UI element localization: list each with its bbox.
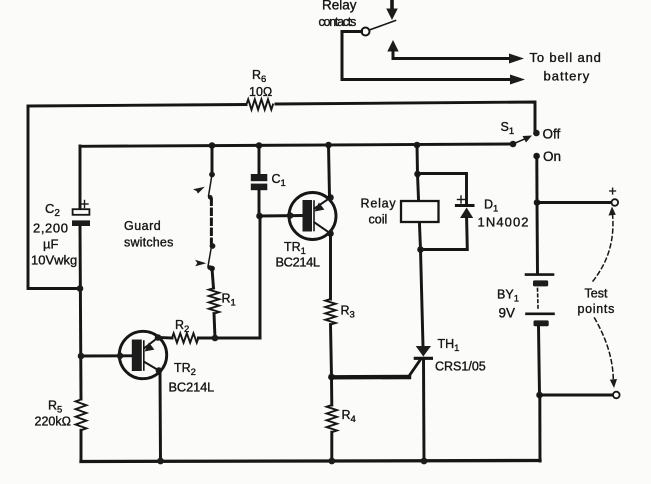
resistor R3 [325,299,335,325]
svg-text:Off: Off [543,127,561,142]
wire D1 loop top [418,174,467,206]
wire to + test point [537,201,612,204]
node TR2 collector on bus [157,458,164,465]
svg-text:Relay: Relay [361,197,397,211]
node C2/left-rail junction [77,285,84,292]
resistor R6 [247,99,273,109]
battery BY1 [526,275,554,327]
svg-text:S1: S1 [501,120,515,137]
label C1 [272,172,286,189]
capacitor C2 branch wire upper [79,146,82,209]
node gate/R4 junction [328,374,335,381]
switch S1: node bus end [510,141,517,148]
svg-text:To bell and: To bell and [530,50,602,65]
svg-text:Relay: Relay [322,0,357,13]
S1 On terminal [533,153,540,160]
resistor R5 [76,400,87,431]
wire bus to C1 [258,145,261,174]
label R2 [175,318,189,335]
guard switch 1 lever [209,175,213,197]
label D1 1N4002 [478,198,530,230]
wire top rail (left corner to R6 to S1) [28,105,246,107]
wire R1 to R2 junction [214,314,215,338]
label S1 Off On [501,120,562,164]
label R5 220k [35,399,71,429]
wire C1 to TR1 base junction [258,190,261,216]
capacitor C1 [251,174,267,190]
svg-text:Guard: Guard [124,219,161,233]
node C1 / TR1 base / R2 junction [256,213,263,220]
svg-text:BC214L: BC214L [169,380,215,395]
svg-text:On: On [543,149,561,164]
guard switch 2 lever [208,246,212,267]
svg-text:10Vwkg: 10Vwkg [31,253,77,268]
node coil/D1 bottom junction [417,246,424,253]
wire TR1 collector to R3 [329,234,332,300]
label + test point [609,183,617,199]
guard switch 1 terminal [209,172,215,178]
svg-text:R6: R6 [252,68,266,85]
svg-text:R5: R5 [48,399,62,416]
wire TR1 emitter to bus [329,145,330,197]
relay contacts switch open terminal [362,28,370,36]
guard switches dashed wire [210,199,213,243]
label TR1 BC214L [276,240,320,270]
wire coil vertical [418,174,421,250]
wire TR1 base lead [260,214,304,217]
resistor R4 [330,377,333,405]
D1 polarity plus [458,196,465,203]
label Test points [578,287,616,317]
guard switches branch: node on bus [209,142,216,149]
svg-text:points: points [578,302,616,316]
guard switch 2 lower terminal [209,266,215,272]
svg-text:D1: D1 [484,198,498,215]
arrowhead to bell and battery (lower) [510,75,525,85]
guard switch 1 arrow [193,187,205,194]
svg-text:TR2: TR2 [174,361,196,378]
node coil/D1 top junction [414,171,421,178]
label TH1 CRS1/05 [435,337,486,374]
resistor R1 [209,288,219,314]
node TR2 base junction on C2 line [78,353,85,360]
wire relay-contact input arrow (down) [386,0,398,20]
svg-text:1N4002: 1N4002 [478,215,530,230]
wire R2 to junction and up-corner [198,337,260,340]
svg-text:2,200: 2,200 [33,221,69,236]
svg-text:C1: C1 [272,172,286,189]
test point pointer arrow upper (dashed) [593,207,616,282]
transistor TR1 [287,193,336,240]
svg-text:Test: Test [585,287,608,301]
thyristor TH1 [415,346,431,358]
S1 Off terminal [533,130,540,137]
svg-text:µF: µF [43,237,58,252]
wire from relay contact common to battery arrow [342,32,515,80]
svg-text:battery: battery [544,69,591,84]
label To bell and battery [530,50,602,84]
wire TH1 cathode to bottom bus [422,358,425,461]
wire relay contact NO side with up arrow [387,40,524,64]
wire junction to bottom bus [538,395,541,461]
node + test junction [534,199,541,206]
svg-text:+: + [609,183,617,199]
svg-text:BC214L: BC214L [276,255,320,270]
svg-text:C2: C2 [45,201,60,219]
capacitor C2 [72,209,90,226]
svg-text:R3: R3 [341,304,355,321]
diode D1 [456,206,473,219]
test point pointer arrow lower (dashed) [595,318,618,388]
wire C2 to TR2 base junction and R5 [80,226,81,399]
svg-text:BY1: BY1 [497,288,519,305]
svg-text:10Ω: 10Ω [249,85,272,99]
svg-text:CRS1/05: CRS1/05 [435,360,486,374]
relay coil body [401,201,439,222]
node TR1 collector on bus [325,142,332,149]
wire R5 to bottom bus [80,430,83,461]
wire battery to lower test junction [539,326,540,395]
label C2 value [31,201,77,268]
svg-text:switches: switches [124,236,174,250]
svg-text:R4: R4 [342,408,356,425]
+ test point terminal [612,199,619,206]
svg-text:9V: 9V [499,306,516,321]
svg-text:R2: R2 [175,318,189,335]
S1 lever [513,138,527,144]
wire junction down to R2 line [259,216,262,338]
svg-text:coil: coil [369,213,388,227]
wire main bus (positive rail y=145) [80,144,513,146]
wire bottom bus (0V rail) [81,461,540,462]
C2 polarity plus [81,201,88,208]
label BY1 9V [497,288,519,321]
resistor R2 [172,333,198,342]
label R6 [249,68,272,99]
svg-text:220kΩ: 220kΩ [35,415,71,429]
svg-text:TH1: TH1 [438,337,460,354]
label Guard switches [124,219,174,250]
wire On terminal to + test junction [535,156,538,203]
wire bus to coil/D1 split [416,145,419,174]
label TR2 BC214L [169,361,215,395]
wire junction to battery [536,203,539,274]
wire guard switch to R1 [212,269,214,289]
wire coil junction to TH1 anode [421,250,424,347]
wire R3 to gate junction [331,325,332,377]
svg-text:R1: R1 [222,292,236,309]
guard switch 2 terminal [210,243,216,249]
svg-text:contacts: contacts [319,15,357,29]
wire bus to guard switch 1 [211,145,214,172]
node lower test junction [536,392,543,399]
label Relay contacts [319,0,357,29]
relay contacts switch lever [368,21,396,31]
transistor TR2 [81,331,167,378]
guard switch 2 arrow [195,260,206,267]
node R4 on bus [328,458,335,465]
wire to lower test point [540,394,614,397]
wire TR2 collector to bottom bus [159,371,162,461]
wire R4 to bottom bus [330,432,333,461]
node TH1 on bus [421,458,428,465]
lower test point terminal [613,392,620,399]
label Relay coil [361,197,397,227]
label R1 [222,292,236,309]
wire TR2 emitter to R2 [158,336,172,339]
label R3 [341,304,355,321]
label R4 [342,408,356,425]
wire left rail from top rail to C2 bottom [28,106,80,289]
capacitor C1 branch: node on bus [256,142,263,149]
relay coil branch: node on bus [414,142,421,149]
wire TH1 gate [332,375,410,380]
wire D1 loop bottom [421,218,468,250]
node R1/R2 junction [212,335,219,342]
